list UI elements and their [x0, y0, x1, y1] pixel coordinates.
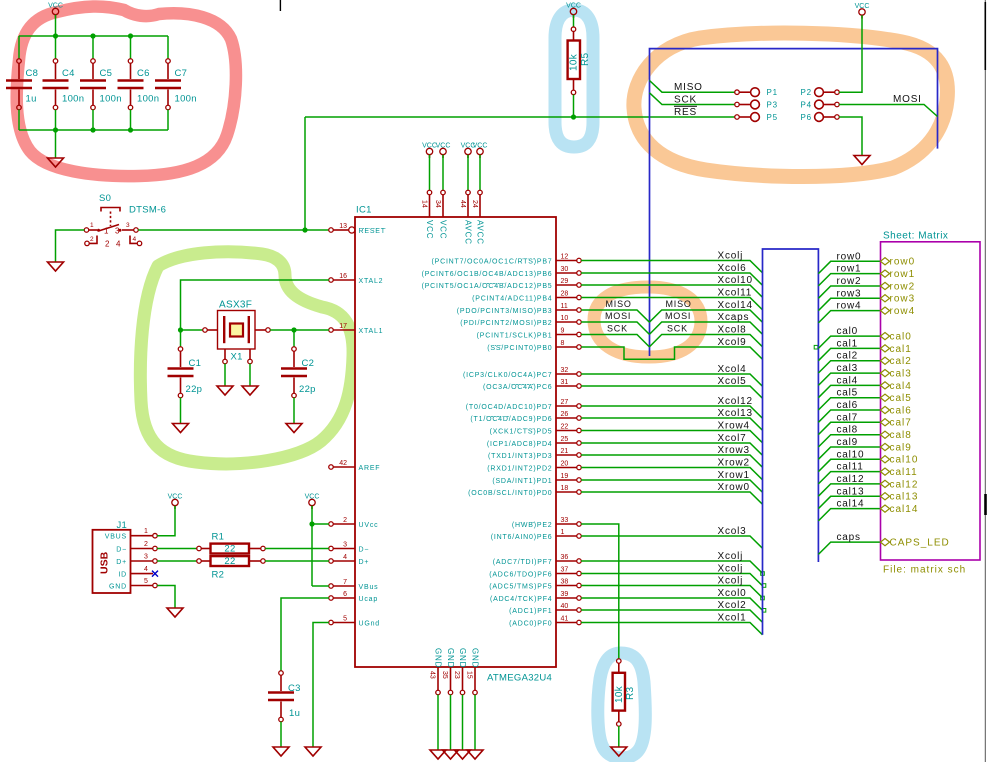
svg-text:cal12: cal12 [837, 474, 865, 485]
svg-text:cal7: cal7 [837, 412, 859, 423]
wire X1 pad grounds [224, 364, 226, 386]
svg-text:cal6: cal6 [837, 400, 859, 411]
svg-text:15: 15 [465, 671, 472, 679]
svg-text:(ADC5/TMS)PF5: (ADC5/TMS)PF5 [489, 584, 552, 591]
svg-text:Xcolj: Xcolj [718, 551, 744, 562]
svg-text:cal5: cal5 [837, 388, 859, 399]
svg-text:(OC3A/OC4A)PC6: (OC3A/OC4A)PC6 [483, 384, 553, 391]
svg-text:Xcol8: Xcol8 [718, 325, 747, 336]
sheet pin cal11 [881, 468, 890, 475]
wire C1 to ground [180, 398, 182, 424]
svg-text:(PDI/PCINT2/MOSI)PB2: (PDI/PCINT2/MOSI)PB2 [460, 320, 552, 327]
svg-text:(XCK1/CTS)PD5: (XCK1/CTS)PD5 [490, 429, 553, 436]
svg-text:100n: 100n [175, 94, 197, 105]
junction R5/RESET net [571, 114, 576, 119]
wire C7 bottom [167, 110, 169, 130]
svg-text:cal4: cal4 [837, 375, 859, 386]
power VCC (VBUS) [168, 494, 183, 509]
svg-text:VBus: VBus [359, 584, 379, 591]
svg-text:(ADC7/TDI)PF7: (ADC7/TDI)PF7 [493, 559, 553, 566]
svg-text:8: 8 [561, 340, 565, 347]
wire XTAL1 right segment [270, 329, 329, 331]
svg-text:13: 13 [339, 223, 347, 230]
wire R3 ground [618, 726, 620, 747]
wire C5 bottom [92, 110, 94, 130]
svg-text:VBUS: VBUS [105, 534, 127, 541]
IC U1 ATMEGA32U4 body [355, 217, 556, 667]
capacitor C6 [118, 59, 144, 110]
wire sheet net cal10 [818, 459, 880, 471]
wire net Xrow3 y455 [581, 455, 762, 467]
highlight orange around ISP header [634, 33, 948, 176]
svg-text:P3: P3 [767, 101, 778, 110]
svg-text:4: 4 [343, 554, 347, 561]
wire net Xcol3 y536 [581, 536, 762, 548]
svg-text:cal6: cal6 [890, 405, 912, 416]
wire net Xcolj y260.5 [581, 261, 762, 273]
svg-text:(PCINT5/OC1A/OC4B/ADC12)PB5: (PCINT5/OC1A/OC4B/ADC12)PB5 [422, 283, 553, 290]
svg-text:MOSI: MOSI [893, 94, 922, 105]
wire sheet net cal14 [818, 509, 880, 521]
svg-text:100n: 100n [100, 94, 122, 105]
svg-text:Sheet: Matrix: Sheet: Matrix [883, 231, 948, 242]
svg-text:UVcc: UVcc [359, 522, 379, 529]
power VCC pin24 [473, 143, 488, 158]
svg-text:1u: 1u [289, 708, 300, 719]
ground pin35 [443, 750, 459, 759]
highlight orange around MISO MOSI SCK [594, 287, 701, 357]
svg-text:17: 17 [339, 323, 347, 330]
wire net Xcol6 y273 [581, 273, 762, 285]
junction top rail x130.5 [128, 33, 133, 38]
svg-text:R5: R5 [580, 52, 591, 66]
pin 27 right [466, 399, 582, 411]
svg-text:C5: C5 [100, 68, 113, 79]
wire net Xrow1 y480 [581, 480, 762, 492]
right black segment mid [984, 494, 987, 515]
svg-text:Xcol4: Xcol4 [718, 364, 747, 375]
pin 2 UVcc left [329, 517, 379, 529]
svg-text:MOSI: MOSI [605, 311, 631, 321]
svg-text:cal9: cal9 [890, 442, 912, 453]
svg-text:27: 27 [561, 399, 569, 406]
svg-text:2: 2 [144, 541, 148, 548]
svg-text:R2: R2 [212, 570, 225, 581]
svg-text:P2: P2 [801, 88, 812, 97]
wire sheet net cal11 [818, 472, 880, 484]
sheet Matrix [881, 242, 981, 560]
pin 17 XTAL1 left [329, 323, 384, 335]
wire net Xcol8 / SCK [581, 335, 649, 347]
wire bottom rail to ground [55, 130, 57, 158]
svg-text:10k: 10k [614, 685, 625, 703]
pin 5 UGnd left [329, 616, 380, 628]
wire sheet net row1 [818, 274, 880, 286]
wire sheet net cal9 [818, 447, 880, 459]
sheet pin cal13 [881, 493, 890, 500]
ground (X1 pad1) [217, 386, 233, 395]
wire sheet net row3 [818, 298, 880, 310]
svg-text:cal13: cal13 [890, 492, 919, 503]
svg-text:(INT6/AIN0)PE6: (INT6/AIN0)PE6 [491, 534, 553, 541]
svg-text:row1: row1 [890, 269, 916, 280]
svg-text:36: 36 [561, 554, 569, 561]
svg-text:XTAL1: XTAL1 [359, 328, 384, 335]
svg-text:Xcolj: Xcolj [718, 251, 744, 262]
pin 42 AREF left [329, 460, 381, 472]
junction bottom rail x55.5 [53, 127, 58, 132]
pin 41 right [509, 616, 581, 628]
svg-text:9: 9 [561, 328, 565, 335]
pin 36 right [493, 554, 582, 566]
power VCC (cap bank) [48, 3, 63, 18]
wire sheet net cal5 [818, 398, 880, 410]
sheet pin cal7 [881, 419, 890, 426]
svg-text:16: 16 [339, 273, 347, 280]
wire net Xcol12 y406 [581, 406, 762, 418]
sheet pin cal14 [881, 505, 890, 512]
svg-text:22p: 22p [299, 384, 316, 395]
pin 32 right [463, 367, 581, 379]
svg-text:R1: R1 [212, 531, 225, 542]
svg-text:row2: row2 [890, 281, 916, 292]
ground pin15 [467, 750, 483, 759]
ground (cap bank) [48, 158, 64, 167]
wire P4 MOSI [839, 105, 937, 117]
svg-text:SCK: SCK [607, 324, 628, 334]
wire S0 left to ground [56, 230, 85, 262]
wire sheet net row0 [818, 261, 880, 273]
sheet pin cal8 [881, 431, 890, 438]
wire end mark (764,610.3) [762, 609, 766, 613]
pin 28 right [472, 291, 581, 303]
svg-text:40: 40 [561, 603, 569, 610]
pin 33 right [512, 517, 581, 529]
resistor R2 22 [157, 556, 329, 580]
power VCC (R5) [566, 3, 581, 18]
svg-text:(HWB)PE2: (HWB)PE2 [512, 522, 553, 529]
power VCC pin44 [461, 143, 476, 158]
svg-text:row0: row0 [890, 257, 916, 268]
svg-text:25: 25 [561, 436, 569, 443]
wire net Xcol4 y374 [581, 374, 762, 386]
right black segment top [984, 2, 986, 70]
svg-text:(SS/PCINT0)PB0: (SS/PCINT0)PB0 [487, 345, 552, 352]
wire VCC to top rail [55, 15, 57, 36]
pin 19 right [492, 473, 581, 485]
wire pin33 to R3 [581, 524, 619, 659]
svg-text:D−: D− [359, 547, 370, 554]
wire VBus [312, 585, 329, 587]
pin 10 right [460, 315, 581, 327]
svg-text:Xcol1: Xcol1 [718, 613, 747, 624]
sheet pin row2 [881, 282, 890, 289]
svg-text:(T0/OC4D/ADC10)PD7: (T0/OC4D/ADC10)PD7 [466, 404, 553, 411]
capacitor C4 [43, 59, 69, 110]
svg-text:cal12: cal12 [890, 479, 919, 490]
ground (C1) [173, 424, 189, 433]
svg-text:(TXD1/INT3)PD3: (TXD1/INT3)PD3 [488, 453, 553, 460]
svg-text:P6: P6 [801, 113, 812, 122]
svg-text:cal9: cal9 [837, 437, 859, 448]
ground (R3) [611, 747, 627, 756]
svg-text:row3: row3 [890, 294, 916, 305]
svg-text:UGnd: UGnd [359, 621, 381, 628]
wire C3 ground [280, 722, 282, 747]
svg-text:22: 22 [224, 556, 235, 567]
junction XTAL2/C1 node [178, 327, 183, 332]
svg-text:32: 32 [561, 367, 569, 374]
svg-text:P4: P4 [801, 101, 812, 110]
svg-text:18: 18 [561, 485, 569, 492]
connector pin P5 [735, 113, 778, 122]
wire net Xcolj y561 [581, 561, 762, 573]
blue rectangle annotation (bus region) [763, 249, 819, 635]
resistor R5 10k [568, 27, 591, 95]
pin 1 right [491, 529, 582, 541]
pin 18 right [468, 485, 581, 497]
wire sheet net caps [818, 542, 880, 554]
svg-text:cal0: cal0 [837, 326, 859, 337]
sheet pin row1 [881, 270, 890, 277]
wire net Xcol2 y610 [581, 610, 762, 622]
svg-text:cal1: cal1 [890, 344, 912, 355]
pin 4 D+ left [329, 554, 370, 566]
svg-text:D+: D+ [359, 559, 370, 566]
pin 37 right [489, 567, 581, 579]
svg-text:(ADC4/TCK)PF4: (ADC4/TCK)PF4 [490, 596, 553, 603]
svg-text:1: 1 [90, 222, 94, 229]
svg-text:10: 10 [561, 315, 569, 322]
junction UVcc node [309, 521, 314, 526]
pin 13 RESET left [329, 223, 386, 235]
power VCC (UVcc) [305, 494, 320, 509]
svg-text:Xrow0: Xrow0 [718, 482, 750, 493]
wire MISO diag [650, 81, 736, 93]
wire VCC to R5 [573, 15, 575, 27]
wire net Xcolj y585.5 [581, 586, 762, 598]
svg-text:Xcolj: Xcolj [718, 564, 744, 575]
svg-text:(ADC1)PF1: (ADC1)PF1 [509, 608, 552, 615]
svg-text:Xrow2: Xrow2 [718, 458, 750, 469]
pin 3 D&#8722; left [329, 542, 370, 554]
svg-text:Xcaps: Xcaps [718, 312, 750, 323]
svg-text:(ADC0)PF0: (ADC0)PF0 [509, 621, 552, 628]
wire VCC to UVcc/VBus [311, 506, 313, 586]
svg-text:(ICP3/CLK0/OC4A)PC7: (ICP3/CLK0/OC4A)PC7 [463, 372, 553, 379]
svg-text:P1: P1 [767, 88, 778, 97]
wire sheet net cal1 [818, 348, 880, 360]
svg-text:42: 42 [339, 460, 347, 467]
svg-text:41: 41 [561, 616, 569, 623]
sheet pin row0 [881, 258, 890, 265]
svg-text:(T1/OC4D/ADC9)PD6: (T1/OC4D/ADC9)PD6 [470, 416, 552, 423]
highlight blue around R3 [598, 653, 646, 758]
svg-text:cal8: cal8 [890, 430, 912, 441]
pin 40 right [509, 603, 581, 615]
wire C4 bottom [55, 110, 57, 130]
svg-text:31: 31 [561, 379, 569, 386]
wire net Xcol14 / MISO [581, 310, 649, 322]
wire sheet net cal3 [818, 373, 880, 385]
ground (ISP) [854, 156, 870, 165]
svg-text:19: 19 [561, 473, 569, 480]
wire net Xcolj y573.5 [581, 574, 762, 586]
wire sheet net cal8 [818, 435, 880, 447]
svg-text:(PCINT7/OC0A/OC1C/RTS)PB7: (PCINT7/OC0A/OC1C/RTS)PB7 [431, 259, 552, 266]
connector J1 USB [93, 520, 159, 593]
wire XTAL1 left segment [181, 329, 203, 331]
svg-text:6: 6 [343, 591, 347, 598]
ground pin43 [430, 750, 446, 759]
wire net Xrow4 y430.5 [581, 431, 762, 443]
sheet pin row3 [881, 295, 890, 302]
wire R5 to RESET net [573, 95, 575, 118]
svg-text:MISO: MISO [606, 299, 632, 309]
svg-text:SCK: SCK [667, 324, 688, 334]
pin 25 right [487, 436, 581, 448]
wire C1 feed [180, 330, 182, 347]
svg-text:row0: row0 [837, 251, 862, 262]
svg-text:cal1: cal1 [837, 338, 859, 349]
sheet pin row4 [881, 307, 890, 314]
svg-text:GND: GND [433, 648, 442, 668]
svg-text:24: 24 [471, 200, 478, 208]
svg-text:C1: C1 [189, 358, 202, 369]
pin 20 right [487, 461, 581, 473]
svg-text:33: 33 [561, 517, 569, 524]
svg-text:C7: C7 [175, 68, 188, 79]
capacitor C7 [155, 59, 181, 110]
connector pin P4 [801, 100, 840, 109]
svg-text:GND: GND [458, 648, 467, 668]
wire XTAL2 [181, 280, 329, 330]
sheet pin cal9 [881, 443, 890, 450]
svg-text:3: 3 [126, 222, 130, 229]
capacitor C2 [281, 347, 307, 398]
svg-text:7: 7 [343, 579, 347, 586]
switch S0 DTSM-6 [84, 193, 166, 249]
wire sheet net cal6 [818, 410, 880, 422]
svg-text:38: 38 [561, 579, 569, 586]
svg-text:Xcol13: Xcol13 [718, 408, 753, 419]
svg-text:(PCINT6/OC1B/OC4B/ADC13)PB6: (PCINT6/OC1B/OC4B/ADC13)PB6 [422, 271, 553, 278]
svg-text:row4: row4 [890, 306, 916, 317]
svg-text:39: 39 [561, 591, 569, 598]
wire C4 top [55, 36, 57, 59]
svg-text:44: 44 [459, 200, 466, 208]
ground (UGnd) [305, 747, 321, 756]
svg-text:MOSI: MOSI [665, 311, 691, 321]
svg-text:cal10: cal10 [890, 455, 919, 466]
svg-text:cal13: cal13 [837, 486, 865, 497]
svg-text:AVCC: AVCC [463, 220, 472, 245]
junction XTAL1/C2 node [291, 327, 296, 332]
svg-text:cal11: cal11 [890, 467, 918, 478]
svg-text:21: 21 [561, 448, 569, 455]
wire sheet net cal7 [818, 422, 880, 434]
wire SCK diag [650, 93, 736, 105]
svg-text:SCK: SCK [674, 94, 697, 105]
svg-text:100n: 100n [62, 94, 84, 105]
svg-text:CAPS_LED: CAPS_LED [890, 538, 950, 549]
wire Ucap to C3 [281, 598, 329, 671]
sheet pin cal6 [881, 406, 890, 413]
svg-text:(OC0B/SCL/INT0)PD0: (OC0B/SCL/INT0)PD0 [468, 490, 552, 497]
wire end mark (762.5,598) [761, 596, 765, 600]
svg-text:cal8: cal8 [837, 425, 859, 436]
blue polyline annotation [650, 49, 938, 356]
pin 9 right [477, 328, 582, 340]
svg-text:DTSM-6: DTSM-6 [129, 205, 166, 216]
crystal X1 ASX3F [203, 300, 271, 364]
wire C2 to ground [293, 398, 295, 424]
svg-text:C2: C2 [302, 358, 315, 369]
svg-text:ASX3F: ASX3F [219, 300, 252, 311]
wire C8 top [18, 36, 20, 59]
svg-text:cal2: cal2 [890, 356, 912, 367]
power VCC pin14 [422, 143, 437, 158]
svg-text:12: 12 [561, 254, 569, 261]
right thin frame line [984, 0, 986, 762]
svg-text:row2: row2 [837, 276, 862, 287]
connector pin P3 [735, 100, 778, 109]
svg-text:22: 22 [561, 424, 569, 431]
svg-text:(PDO/PCINT3/MISO)PB3: (PDO/PCINT3/MISO)PB3 [457, 308, 553, 315]
sheet pin cal12 [881, 480, 890, 487]
highlight green around crystal [140, 252, 353, 464]
wire VBUS to VCC [157, 506, 175, 536]
pin 31 right [483, 379, 581, 391]
svg-text:D−: D− [116, 546, 127, 553]
junction top rail x93 [90, 33, 95, 38]
wire C8 bottom [18, 110, 20, 130]
svg-text:Xrow1: Xrow1 [718, 470, 750, 481]
pin 8 right [487, 340, 581, 352]
pin 21 right [488, 448, 581, 460]
svg-text:Xcol7: Xcol7 [718, 433, 747, 444]
svg-text:2: 2 [90, 236, 94, 243]
svg-text:Xcol9: Xcol9 [718, 337, 747, 348]
svg-text:Xrow4: Xrow4 [718, 421, 750, 432]
svg-text:4: 4 [116, 240, 121, 249]
svg-text:(PCINT1/SCLK)PB1: (PCINT1/SCLK)PB1 [477, 333, 553, 340]
capacitor C8 [6, 59, 32, 110]
svg-text:IC1: IC1 [356, 205, 372, 216]
wire C6 top [130, 36, 132, 59]
svg-text:Xcol2: Xcol2 [718, 600, 747, 611]
wire net Xrow2 y467.5 [581, 468, 762, 480]
svg-text:Ucap: Ucap [359, 596, 379, 603]
svg-text:row1: row1 [837, 264, 862, 275]
svg-text:23: 23 [453, 671, 460, 679]
svg-text:Xrow3: Xrow3 [718, 445, 750, 456]
wire C6 bottom [130, 110, 132, 130]
svg-text:14: 14 [420, 200, 427, 208]
ground (X1 pad2) [242, 386, 258, 395]
svg-text:Xcol14: Xcol14 [718, 300, 753, 311]
svg-text:cal4: cal4 [890, 381, 912, 392]
svg-text:cal11: cal11 [837, 462, 864, 473]
svg-text:(ICP1/ADC8)PD4: (ICP1/ADC8)PD4 [487, 441, 553, 448]
wire end mark (762.5,573.5) [761, 572, 765, 576]
svg-text:GND: GND [446, 648, 455, 668]
wire net Xcol7 y443 [581, 443, 762, 455]
sheet pin cal4 [881, 382, 890, 389]
svg-text:2: 2 [343, 517, 347, 524]
svg-text:RES: RES [674, 107, 697, 118]
svg-text:10k: 10k [569, 53, 580, 71]
